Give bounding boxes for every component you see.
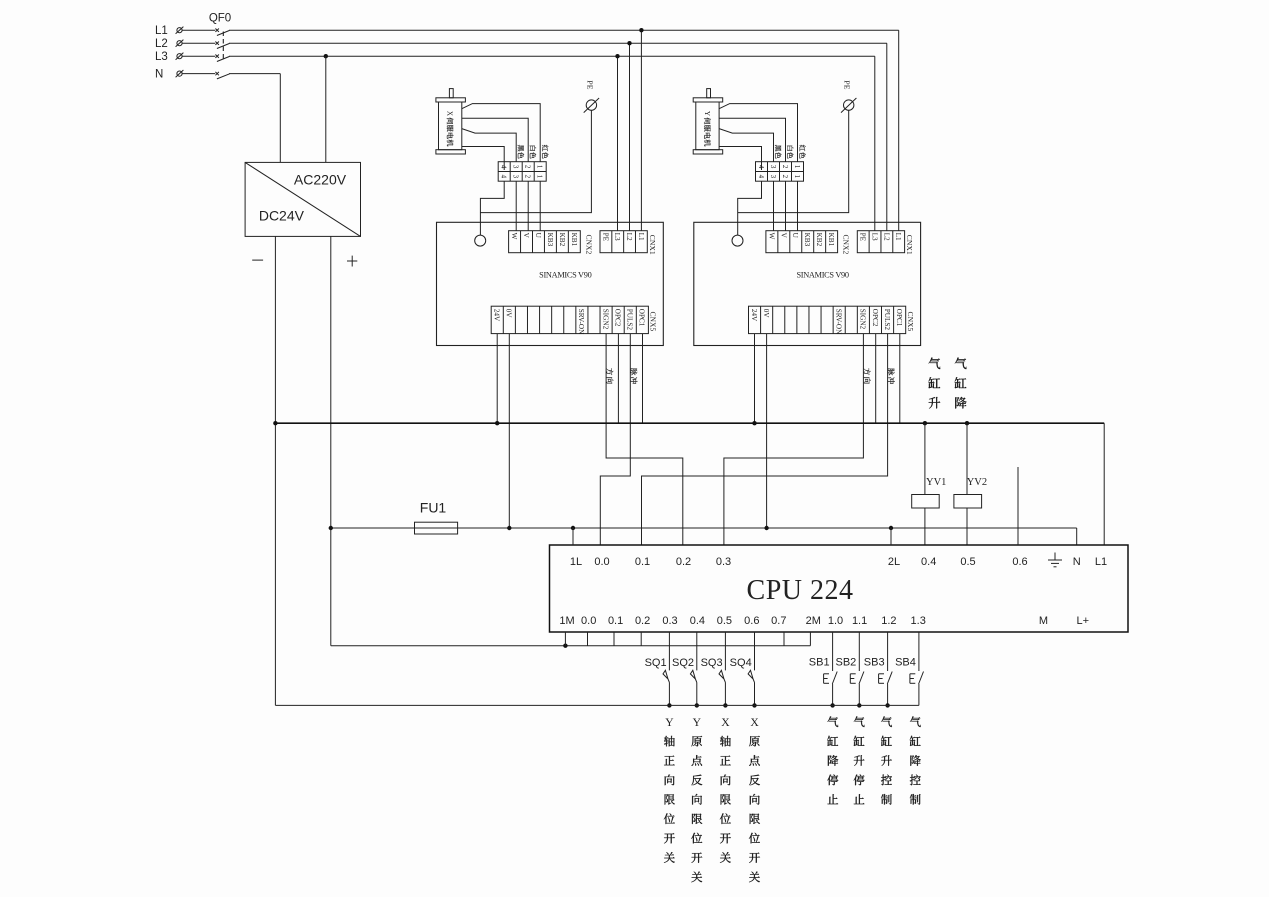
svg-text:OPC2: OPC2 [871, 309, 879, 327]
wire motor M2 lead 4 [719, 147, 761, 171]
wire motor M1 lead 3 (black) [462, 129, 516, 162]
svg-text:2M: 2M [806, 615, 821, 627]
svg-text:OPC1: OPC1 [638, 309, 646, 327]
breaker QF0 pole L1: blade [217, 30, 230, 35]
svg-text:0.5: 0.5 [717, 615, 732, 627]
PLC CPU 224 outline [550, 545, 1129, 632]
svg-text:X: X [721, 716, 730, 729]
svg-text:OPC2: OPC2 [614, 309, 622, 327]
svg-text:24V: 24V [750, 309, 758, 322]
svg-text:Y: Y [693, 716, 702, 729]
wire connector pin2 to drive V [527, 181, 529, 231]
svg-text:0.2: 0.2 [635, 615, 650, 627]
svg-text:V: V [522, 233, 530, 239]
label column for SB2: 气缸升停止 [854, 716, 865, 727]
wire rail L2 phase [229, 42, 887, 44]
svg-text:1: 1 [793, 165, 801, 169]
wire +24V horizontal bus [275, 422, 1104, 424]
wire connector pin1 to drive U [539, 181, 541, 231]
svg-text:KB1: KB1 [827, 233, 835, 247]
drive 1 motor terminal strip CNX2 [509, 231, 581, 253]
svg-text:SINAMICS V90: SINAMICS V90 [539, 271, 591, 280]
label 脉冲 pulse [888, 368, 895, 375]
breaker QF0 pole L2: blade [217, 43, 230, 48]
servo motor M2: bottom flange [693, 150, 723, 154]
wire drive 2 0V pin to fused rail [766, 334, 768, 528]
wire drive2 PULS2 to CPU output 0.1 [642, 334, 888, 545]
wire L2 drop to drive 1 [629, 43, 631, 231]
wire L3 down to power supply [325, 56, 327, 162]
drive 2 PE stud circle [732, 235, 743, 246]
wire drive 1 24V pin to +24 bus [496, 334, 498, 424]
wire rail L1 phase [229, 29, 899, 31]
label 红色 (red) [800, 145, 806, 152]
wire connector pin1 to drive U [797, 181, 799, 231]
solenoid valve YV1 coil [912, 495, 940, 509]
drive 1 mains terminal strip CNX1 [600, 231, 647, 253]
CPU ground symbol [1054, 553, 1056, 561]
label minus output [252, 259, 263, 261]
svg-text:L1: L1 [637, 233, 645, 241]
solenoid valve YV2 coil [954, 495, 982, 509]
svg-text:0.1: 0.1 [635, 556, 650, 568]
wire motor M2 lead 3 (black) [719, 129, 773, 162]
servo motor M1: top flange [436, 98, 466, 102]
svg-text:SQ4: SQ4 [730, 657, 752, 669]
wire L3 drop to drive 2 [874, 56, 876, 231]
svg-text:1: 1 [536, 175, 544, 179]
wire drive 2 24V pin to +24 bus [754, 334, 756, 424]
wire drive2 SIGN2 to CPU output 0.3 [724, 334, 864, 545]
svg-text:SRV-ON: SRV-ON [577, 309, 585, 335]
servo motor M1 (X axis): shaft [449, 89, 453, 98]
wire N from breaker [229, 73, 280, 75]
svg-text:1.3: 1.3 [911, 615, 926, 627]
svg-text:KB1: KB1 [570, 233, 578, 247]
svg-text:Y: Y [703, 111, 711, 117]
svg-text:0.7: 0.7 [771, 615, 786, 627]
wire rail L3 phase [229, 55, 875, 57]
svg-text:3: 3 [512, 175, 520, 179]
svg-text:SINAMICS V90: SINAMICS V90 [796, 271, 848, 280]
wire connector pin2 to drive V [785, 181, 787, 231]
wire motor M1 lead 2 (white) [462, 118, 528, 161]
junction dots on fused rail [329, 526, 333, 530]
wire bus right end down to CPU L1 [1103, 423, 1105, 545]
breaker QF0 mechanical link (dashed) [222, 32, 224, 60]
wire motor M2 lead 2 (white) [719, 118, 785, 161]
drive 2 mains terminal strip CNX1 [857, 231, 904, 253]
wire L2 drop to drive 2 [886, 43, 888, 231]
svg-text:SB2: SB2 [836, 657, 857, 669]
svg-text:0V: 0V [505, 309, 513, 319]
dots on L1/L2/L3 rails at drive 1 branches [639, 28, 643, 32]
label 黑色 (black) [775, 145, 781, 151]
servo motor M2: body [696, 102, 719, 150]
svg-text:CNX5: CNX5 [649, 312, 658, 332]
wire N terminal to breaker [182, 73, 215, 75]
svg-text:1: 1 [793, 175, 801, 179]
wire rail right end down to CPU N [1076, 528, 1078, 545]
wire L3 terminal to breaker [182, 55, 215, 57]
svg-text:4: 4 [500, 165, 508, 169]
svg-text:YV2: YV2 [967, 477, 987, 488]
svg-text:0.6: 0.6 [1012, 556, 1027, 568]
svg-text:CNX2: CNX2 [584, 235, 593, 255]
svg-text:2: 2 [781, 165, 789, 169]
label 白色 (white) [530, 146, 536, 151]
svg-text:X: X [750, 716, 759, 729]
svg-text:PE: PE [585, 80, 594, 89]
svg-text:FU1: FU1 [420, 500, 447, 516]
svg-text:2: 2 [524, 165, 532, 169]
wire connector pin4 to PE stud [738, 181, 762, 235]
CPU bottom terminal stubs [564, 632, 566, 646]
drive 2 motor terminal strip CNX2 [766, 231, 838, 253]
svg-text:0.0: 0.0 [594, 556, 609, 568]
wire L2 terminal to breaker [182, 42, 215, 44]
connector X1 4-pin block [498, 162, 546, 182]
wire drive1 PULS2 to CPU output 0.0 [600, 334, 630, 545]
svg-text:SQ1: SQ1 [645, 657, 667, 669]
junction dot 1M [563, 644, 567, 648]
svg-text:U: U [534, 233, 542, 239]
wire bottom common rail to switches [275, 704, 919, 706]
wire DC plus down [330, 236, 332, 645]
svg-text:M: M [1039, 615, 1048, 627]
label 黑色 (black) [518, 145, 524, 151]
svg-text:L2: L2 [625, 233, 633, 241]
node junction L3 to power supply [324, 54, 328, 58]
svg-text:U: U [791, 233, 799, 239]
drive 1 control terminal strip CNX5 [491, 306, 648, 333]
svg-text:SQ3: SQ3 [701, 657, 723, 669]
svg-text:W: W [510, 233, 518, 240]
solenoid valve YV1 wire [924, 423, 926, 494]
svg-text:SB1: SB1 [809, 657, 830, 669]
wire connector pin3 to drive W [773, 181, 775, 231]
svg-text:KB3: KB3 [546, 233, 554, 247]
wire 1M/2M common rail [331, 645, 811, 647]
svg-text:N: N [1073, 556, 1081, 568]
svg-text:N: N [155, 69, 163, 81]
svg-text:1.1: 1.1 [852, 615, 867, 627]
svg-text:SIGN2: SIGN2 [859, 309, 867, 330]
svg-text:KB2: KB2 [815, 233, 823, 247]
wire fused neutral rail [331, 527, 1077, 529]
label 气缸升 cylinder up [929, 358, 941, 370]
svg-text:L1: L1 [155, 25, 168, 37]
wire connector pin3 to drive W [515, 181, 517, 231]
svg-text:2: 2 [781, 175, 789, 179]
wire PE symbol to drive PE stud [738, 110, 849, 212]
input stubs to SB buttons [832, 632, 834, 671]
svg-text:3: 3 [512, 165, 520, 169]
wire drive1 SIGN2 to CPU output 0.2 [606, 334, 683, 545]
power supply AC220V/DC24V box [245, 162, 360, 236]
label 气缸降 cylinder down [955, 358, 967, 370]
svg-text:0.1: 0.1 [608, 615, 623, 627]
solenoid valve YV2 wire [966, 423, 968, 494]
connector X2 4-pin block [756, 162, 804, 182]
wire DC minus down left side [274, 236, 276, 705]
drive 1 PE stud circle [475, 235, 486, 246]
svg-text:L1: L1 [1095, 556, 1107, 568]
svg-text:SB3: SB3 [864, 657, 885, 669]
svg-text:CNX5: CNX5 [906, 312, 915, 332]
label 方向 direction [864, 368, 871, 375]
svg-text:3: 3 [769, 175, 777, 179]
breaker QF0 pole N: blade [217, 74, 230, 79]
svg-text:3: 3 [769, 165, 777, 169]
label column for SB3: 气缸升控制 [881, 716, 892, 727]
svg-text:PE: PE [601, 233, 609, 242]
wire drive 1 OPC1 pin to bus [642, 334, 644, 424]
svg-text:0.2: 0.2 [676, 556, 691, 568]
svg-text:CNX1: CNX1 [905, 235, 914, 255]
input stubs to SQ switches [668, 632, 670, 670]
wire motor M1 lead 4 [462, 147, 504, 171]
svg-text:PULS2: PULS2 [883, 309, 891, 331]
servo motor M2 (Y axis): shaft [707, 89, 711, 98]
svg-text:0.6: 0.6 [744, 615, 759, 627]
svg-text:AC220V: AC220V [294, 172, 347, 188]
svg-text:4: 4 [757, 165, 765, 169]
svg-text:1M: 1M [559, 615, 574, 627]
breaker QF0 pole N: fixed contact x-mark [215, 72, 219, 75]
svg-text:QF0: QF0 [209, 13, 231, 25]
svg-text:4: 4 [757, 175, 765, 179]
svg-text:0V: 0V [762, 309, 770, 319]
svg-text:0.4: 0.4 [921, 556, 936, 568]
svg-text:W: W [767, 233, 775, 240]
svg-text:1: 1 [536, 165, 544, 169]
svg-text:0.0: 0.0 [581, 615, 596, 627]
svg-text:YV1: YV1 [926, 477, 946, 488]
servo motor M1: bottom flange [436, 150, 466, 154]
svg-text:0.4: 0.4 [690, 615, 705, 627]
svg-text:1.2: 1.2 [881, 615, 896, 627]
svg-text:SQ2: SQ2 [672, 657, 694, 669]
wire motor M2 lead 1 (red) [719, 104, 797, 162]
wire L3 drop to drive 1 [617, 56, 619, 231]
breaker QF0 pole L1: fixed contact x-mark [215, 29, 219, 32]
svg-text:SIGN2: SIGN2 [601, 309, 609, 330]
wire L1 drop to drive 2 [898, 30, 900, 231]
svg-text:CNX1: CNX1 [648, 235, 657, 255]
wire drive 1 0V pin to fused rail [508, 334, 510, 528]
fuse FU1 [415, 522, 458, 534]
svg-text:1.0: 1.0 [828, 615, 843, 627]
wire drive 1 OPC2 pin to bus [617, 334, 619, 424]
breaker QF0 pole L2: fixed contact x-mark [215, 42, 219, 45]
svg-text:KB3: KB3 [803, 233, 811, 247]
svg-text:24V: 24V [493, 309, 501, 322]
wire connector pin4 to PE stud [480, 181, 504, 235]
svg-text:DC24V: DC24V [259, 207, 305, 223]
breaker QF0 pole L3: blade [217, 56, 230, 61]
label column for SB1: 气缸降停止 [827, 716, 838, 727]
label 白色 (white) [787, 146, 793, 151]
servo motor M1: body [439, 102, 462, 150]
svg-text:L3: L3 [155, 51, 168, 63]
svg-text:0.5: 0.5 [960, 556, 975, 568]
svg-text:0.3: 0.3 [716, 556, 731, 568]
wire L1 terminal to breaker [182, 29, 215, 31]
SINAMICS V90 drive U1 outline [437, 222, 664, 345]
drive 2 control terminal strip CNX5 [749, 306, 906, 333]
wire L1 drop to drive 1 [640, 30, 642, 231]
svg-text:L3: L3 [613, 233, 621, 241]
svg-text:OPC1: OPC1 [895, 309, 903, 327]
svg-text:2: 2 [524, 175, 532, 179]
wire CPU 1L stub to fused rail [572, 528, 574, 545]
svg-text:KB2: KB2 [558, 233, 566, 247]
svg-text:L3: L3 [870, 233, 878, 241]
label 脉冲 pulse [630, 368, 637, 375]
svg-text:CNX2: CNX2 [842, 235, 851, 255]
svg-text:L1: L1 [894, 233, 902, 241]
svg-text:PULS2: PULS2 [626, 309, 634, 331]
wire drive 2 OPC2 pin to bus [875, 334, 877, 424]
junction dots on bus [273, 421, 277, 425]
svg-text:L2: L2 [155, 38, 168, 50]
svg-text:PE: PE [843, 80, 852, 89]
wire motor M1 lead 1 (red) [462, 104, 540, 162]
label plus output [347, 260, 357, 262]
wire CPU 0.6 stub [1017, 467, 1019, 545]
svg-text:2L: 2L [888, 556, 900, 568]
svg-text:V: V [779, 233, 787, 239]
SINAMICS V90 drive U2 outline [694, 222, 921, 345]
breaker QF0 pole L3: fixed contact x-mark [215, 55, 219, 58]
svg-text:0.3: 0.3 [662, 615, 677, 627]
svg-text:4: 4 [500, 175, 508, 179]
svg-text:L2: L2 [882, 233, 890, 241]
servo motor M2: top flange [693, 98, 723, 102]
svg-text:PE: PE [859, 233, 867, 242]
svg-text:L+: L+ [1077, 615, 1090, 627]
svg-text:1L: 1L [570, 556, 582, 568]
label column for SB4: 气缸降控制 [910, 716, 921, 727]
svg-text:Y: Y [665, 716, 674, 729]
svg-text:SRV-ON: SRV-ON [835, 309, 843, 335]
label 红色 (red) [542, 145, 548, 152]
label 方向 direction [606, 368, 613, 375]
wire PE symbol to drive PE stud [480, 110, 591, 212]
svg-text:CPU 224: CPU 224 [747, 575, 854, 606]
svg-text:X: X [446, 111, 454, 117]
wire CPU 2L stub to fused rail [890, 528, 892, 545]
wire drive 2 OPC1 pin to bus [899, 334, 901, 424]
svg-text:SB4: SB4 [895, 657, 916, 669]
